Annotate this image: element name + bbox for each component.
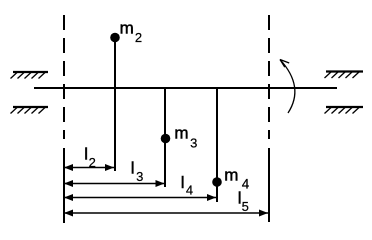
left correction plane dashed line (63, 15, 65, 139)
mass m2 stem (114, 38, 116, 171)
mass m3 dot (161, 134, 171, 144)
mass m2 dot (110, 33, 120, 43)
shaft (34, 87, 337, 89)
right extension line (solid) (268, 148, 270, 222)
rotation direction arc (280, 60, 295, 114)
svg-text:4: 4 (242, 177, 250, 192)
svg-text:3: 3 (136, 169, 143, 184)
mass m3 stem (164, 88, 166, 187)
svg-text:2: 2 (89, 155, 96, 170)
bearing hatch upper-right (325, 72, 364, 79)
mass m4 dot (212, 177, 222, 187)
svg-text:4: 4 (186, 183, 193, 198)
bearing hatch upper-left (11, 72, 49, 79)
svg-text:5: 5 (242, 199, 249, 214)
dimension arrow l3 (64, 180, 165, 187)
dimension arrow l5 (64, 210, 268, 217)
svg-text:l: l (131, 159, 135, 178)
svg-text:m: m (224, 165, 238, 184)
svg-text:l: l (181, 173, 185, 192)
svg-text:3: 3 (190, 135, 197, 150)
svg-text:m: m (120, 19, 134, 38)
svg-text:2: 2 (135, 30, 142, 45)
bearing hatch lower-right (325, 107, 364, 114)
dimension arrow l4 (64, 194, 216, 201)
rotation arrowhead (280, 60, 289, 68)
svg-text:l: l (84, 145, 88, 164)
left extension line (solid) (63, 148, 65, 223)
dimension arrow l2 (64, 164, 114, 171)
mass m4 stem (216, 88, 218, 202)
svg-text:m: m (174, 124, 188, 143)
bearing hatch lower-left (11, 107, 49, 114)
right correction plane dashed line (268, 15, 270, 139)
